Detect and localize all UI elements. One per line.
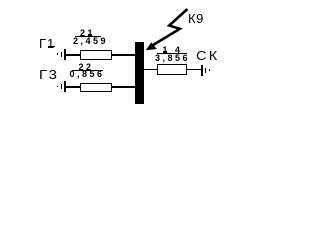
wire from X2 to R2 — [66, 86, 80, 88]
pin number 22 — [79, 63, 94, 72]
resistor R3 — [157, 64, 188, 75]
pin number 21 — [80, 29, 95, 38]
connector X3 tall bar — [201, 65, 203, 76]
connector X3 short bar — [205, 68, 207, 73]
pin number 14 digit-1 foot — [163, 51, 167, 52]
bus bar node — [135, 42, 144, 104]
connector X2 dot — [57, 86, 59, 88]
fraction bar R1 — [75, 36, 100, 37]
connector X2 tall bar — [64, 81, 66, 92]
wire from X1 to R1 — [66, 54, 80, 56]
connector X1 tall bar — [64, 49, 66, 60]
connector X2 short bar — [61, 84, 63, 89]
wire from bus to R3 — [143, 69, 157, 71]
value 3,856 — [155, 54, 190, 63]
wire from R3 to X3 — [187, 69, 201, 71]
label Г3 — [39, 68, 58, 81]
pin number 21 digit-1 foot — [88, 34, 92, 35]
pin number 14 — [163, 46, 183, 55]
wire from R2 to bus — [111, 86, 135, 88]
resistor R2 — [80, 83, 112, 92]
resistor R1 — [80, 50, 112, 60]
value 0,856 — [70, 70, 105, 79]
fraction bar R3 — [157, 53, 187, 54]
fraction bar R2 — [72, 70, 103, 71]
connector X1 short bar — [61, 52, 63, 57]
label СК — [196, 49, 219, 62]
label К9 — [188, 12, 204, 25]
label Г1 — [39, 37, 55, 50]
arrow K9 lightning bolt — [0, 0, 258, 160]
value 2,459 — [73, 37, 108, 46]
label Г1 foot of digit 1 — [48, 46, 55, 47]
connector X1 dot — [57, 53, 59, 55]
connector X3 dot — [209, 69, 211, 71]
wire from R1 to bus — [111, 54, 135, 56]
